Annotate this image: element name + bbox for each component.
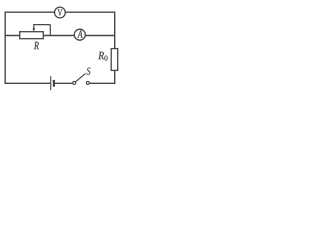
resistor R0 body [111,49,118,71]
wire left [4,12,6,85]
voltmeter U1 circle [55,7,66,18]
wire middle row [5,35,115,37]
wire bottom middle [55,82,73,84]
wire top [5,11,115,13]
switch S right contact [86,81,89,84]
rheostat slider arrow [32,25,50,36]
wire bottom right [89,82,115,84]
label R [34,42,39,49]
ammeter label A [77,30,82,37]
switch S lever [76,74,86,82]
switch S left contact [73,81,76,84]
label S [87,68,91,75]
voltmeter label V [58,9,63,16]
wire bottom left [5,82,51,84]
label R0 [98,52,104,59]
label R0 subscript [104,56,107,61]
battery long plate [50,76,52,90]
battery short plate [53,80,55,87]
wire right lower [114,70,116,84]
resistor R (rheostat body) [20,32,44,39]
wire right upper [114,12,116,49]
ammeter U2 circle [74,29,85,40]
